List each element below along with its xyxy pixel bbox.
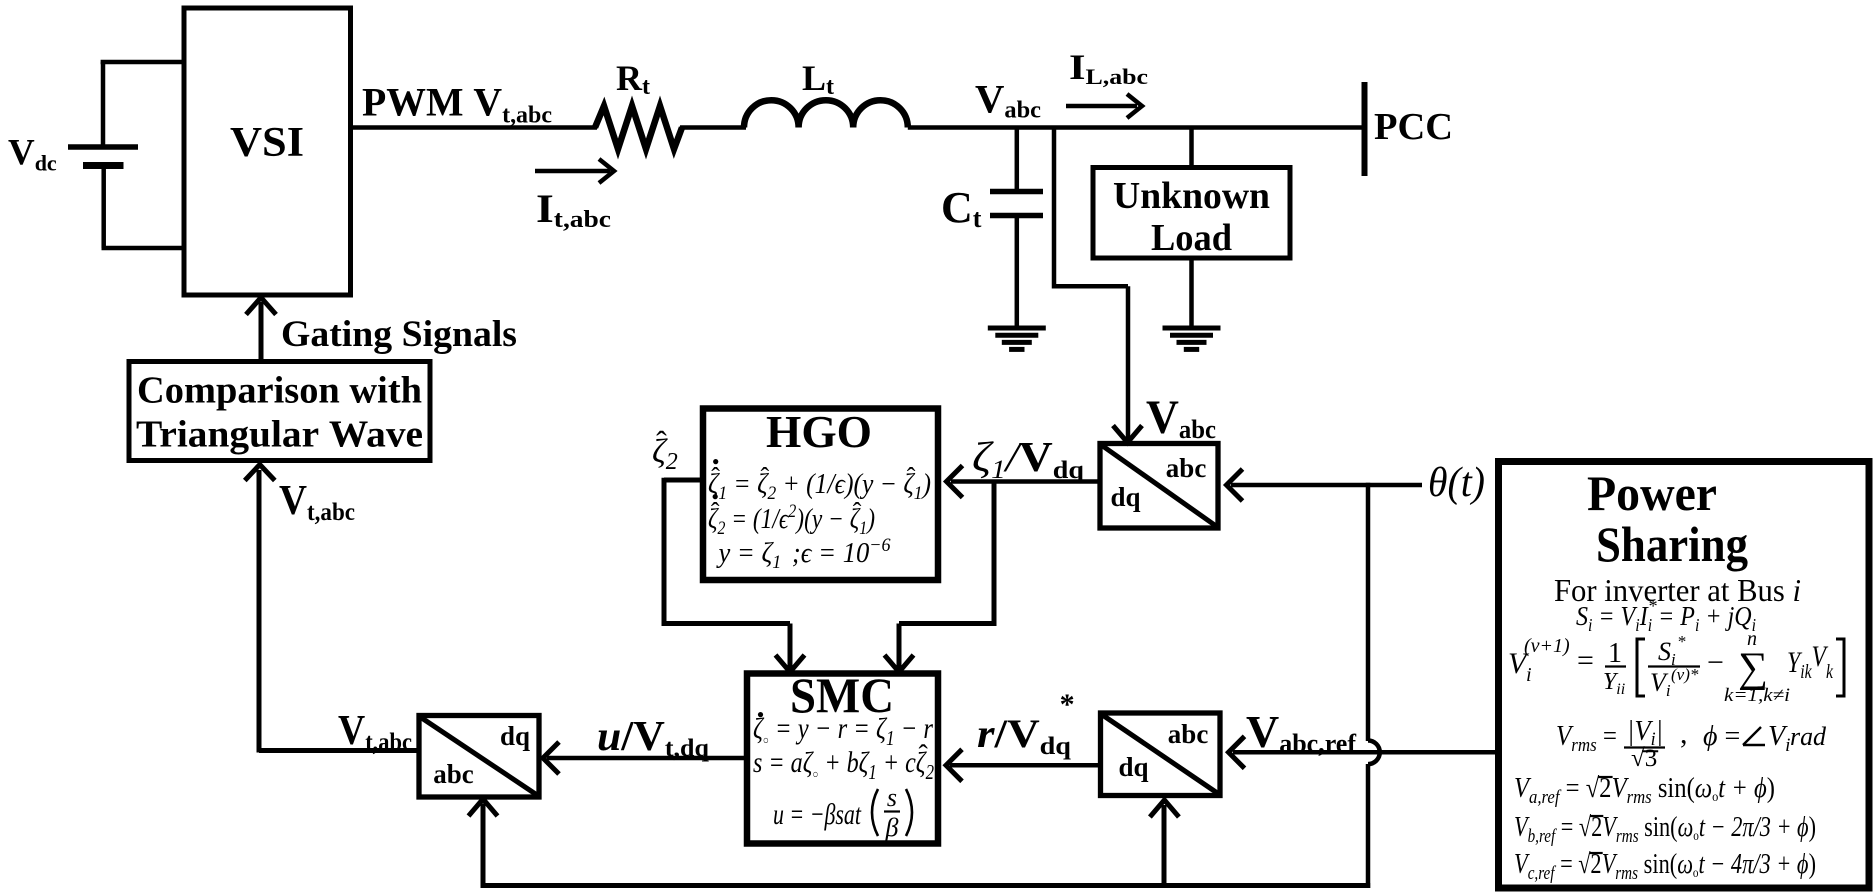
svg-text:V: V bbox=[1007, 711, 1040, 756]
svg-text:|: | bbox=[1656, 716, 1663, 747]
svg-text:s: s bbox=[887, 783, 897, 812]
svg-text:PWM V: PWM V bbox=[362, 80, 502, 125]
svg-text:*: * bbox=[1060, 688, 1075, 721]
svg-text:rms: rms bbox=[1615, 863, 1638, 884]
svg-text:2: 2 bbox=[666, 449, 678, 475]
svg-text:I: I bbox=[536, 186, 554, 231]
svg-text:abc: abc bbox=[433, 759, 474, 789]
svg-text:sin(: sin( bbox=[1652, 773, 1695, 804]
svg-text:−: − bbox=[880, 469, 904, 500]
svg-text:s = a: s = a bbox=[753, 746, 803, 779]
svg-text:i: i bbox=[1793, 572, 1802, 608]
svg-text:t,abc: t,abc bbox=[554, 207, 612, 233]
svg-text:= (1/: = (1/ bbox=[725, 504, 780, 535]
svg-text:,: , bbox=[1680, 717, 1688, 750]
svg-text:=: = bbox=[1555, 849, 1579, 880]
svg-text:): ) bbox=[1809, 812, 1816, 843]
svg-text:Triangular Wave: Triangular Wave bbox=[136, 414, 423, 456]
svg-text:*: * bbox=[1677, 632, 1686, 651]
svg-text:dq: dq bbox=[500, 721, 530, 751]
svg-text:k: k bbox=[1826, 661, 1834, 683]
svg-text:2: 2 bbox=[926, 760, 935, 784]
svg-text:L,abc: L,abc bbox=[1086, 64, 1149, 89]
svg-text:|V: |V bbox=[1627, 716, 1653, 747]
svg-text:dq: dq bbox=[1119, 752, 1149, 782]
svg-text:c,ref: c,ref bbox=[1528, 863, 1557, 884]
svg-text:−: − bbox=[1707, 646, 1724, 679]
svg-text:+ c: + c bbox=[877, 746, 916, 779]
svg-text:=: = bbox=[727, 469, 757, 500]
svg-text:)(y: )(y bbox=[843, 469, 880, 500]
svg-text:√3: √3 bbox=[1631, 745, 1657, 772]
svg-text:V: V bbox=[1246, 706, 1279, 757]
svg-text:+ ϕ: + ϕ bbox=[1725, 773, 1767, 804]
svg-text:PCC: PCC bbox=[1374, 106, 1453, 148]
svg-text:L: L bbox=[802, 58, 826, 98]
svg-text:rad: rad bbox=[1790, 722, 1827, 751]
svg-text:ii: ii bbox=[1616, 681, 1625, 698]
svg-text:1: 1 bbox=[718, 483, 727, 504]
svg-text:=: = bbox=[1555, 812, 1579, 843]
svg-text:1: 1 bbox=[859, 518, 867, 539]
svg-text:− 2π/3 + ϕ: − 2π/3 + ϕ bbox=[1705, 812, 1809, 843]
svg-text:abc,ref: abc,ref bbox=[1279, 729, 1356, 758]
svg-text:=: = bbox=[1577, 644, 1594, 677]
svg-text:V: V bbox=[1019, 435, 1053, 481]
svg-text:Sharing: Sharing bbox=[1596, 516, 1748, 572]
svg-text:θ: θ bbox=[1428, 460, 1448, 506]
svg-text:1: 1 bbox=[991, 455, 1006, 484]
svg-text:V: V bbox=[338, 708, 365, 754]
svg-text:abc: abc bbox=[1179, 415, 1216, 444]
svg-text:Comparison with: Comparison with bbox=[137, 370, 422, 412]
svg-text:Power: Power bbox=[1587, 465, 1717, 521]
svg-text:u =: u = bbox=[773, 798, 810, 831]
svg-text:): ) bbox=[1809, 849, 1816, 880]
svg-text:sat: sat bbox=[835, 798, 861, 831]
svg-text:rms: rms bbox=[1571, 735, 1596, 756]
svg-text:1: 1 bbox=[1608, 638, 1622, 669]
svg-text:β: β bbox=[824, 798, 836, 831]
svg-text:): ) bbox=[1767, 773, 1775, 804]
svg-text:= P: = P bbox=[1652, 601, 1695, 631]
svg-text:dq: dq bbox=[1040, 733, 1072, 760]
svg-text:)(y: )(y bbox=[795, 504, 828, 535]
svg-text:V: V bbox=[279, 478, 307, 524]
svg-text:dq: dq bbox=[1111, 482, 1141, 512]
svg-text:t: t bbox=[642, 74, 650, 100]
svg-text:ϕ: ϕ bbox=[1703, 721, 1718, 752]
svg-text:t,abc: t,abc bbox=[307, 499, 355, 526]
svg-text:abc: abc bbox=[1166, 453, 1207, 483]
svg-text:y =: y = bbox=[716, 538, 762, 569]
svg-text:dc: dc bbox=[35, 151, 57, 176]
svg-text:β: β bbox=[885, 813, 899, 842]
svg-text:rms: rms bbox=[1616, 826, 1639, 847]
svg-text:t: t bbox=[973, 204, 982, 233]
svg-text:t,dq: t,dq bbox=[665, 735, 709, 762]
svg-text:+ jQ: + jQ bbox=[1699, 601, 1751, 631]
svg-text:): ) bbox=[921, 469, 931, 500]
svg-text:i: i bbox=[1526, 664, 1532, 686]
svg-text:/: / bbox=[993, 711, 1008, 756]
svg-text:(v)*: (v)* bbox=[1671, 665, 1699, 684]
svg-text:HGO: HGO bbox=[766, 406, 872, 457]
svg-text:V: V bbox=[8, 133, 35, 174]
svg-text:n: n bbox=[1747, 628, 1757, 650]
svg-text:b,ref: b,ref bbox=[1528, 826, 1558, 847]
svg-text:−: − bbox=[810, 798, 825, 831]
svg-text:t,abc: t,abc bbox=[365, 729, 412, 756]
svg-text:sin(: sin( bbox=[1638, 849, 1677, 880]
svg-text:a,ref: a,ref bbox=[1529, 787, 1562, 808]
svg-text:(v+1): (v+1) bbox=[1524, 635, 1570, 657]
svg-text:dq: dq bbox=[1053, 457, 1084, 484]
svg-text:ω: ω bbox=[1678, 812, 1694, 843]
svg-text:Gating Signals: Gating Signals bbox=[281, 314, 517, 355]
svg-text:Load: Load bbox=[1151, 217, 1232, 259]
svg-text:V: V bbox=[633, 714, 665, 760]
svg-text:;: ; bbox=[781, 538, 801, 569]
svg-text:S: S bbox=[1576, 601, 1588, 631]
svg-text:k=1,k≠i: k=1,k≠i bbox=[1724, 685, 1790, 706]
svg-text:S: S bbox=[1658, 637, 1671, 666]
svg-text:1: 1 bbox=[772, 552, 781, 573]
svg-text:VSI: VSI bbox=[230, 120, 304, 166]
svg-text:ω: ω bbox=[1695, 773, 1712, 804]
svg-text:u: u bbox=[597, 714, 621, 760]
svg-text:−: − bbox=[828, 504, 850, 535]
svg-text:abc: abc bbox=[1168, 719, 1209, 749]
svg-text:V: V bbox=[975, 77, 1005, 122]
svg-text:t,abc: t,abc bbox=[502, 103, 552, 129]
svg-text:rms: rms bbox=[1627, 787, 1652, 808]
svg-text:= y: = y bbox=[769, 712, 815, 745]
svg-text:1: 1 bbox=[868, 760, 876, 784]
svg-text:+ b: + b bbox=[818, 746, 858, 779]
svg-text:*: * bbox=[1648, 596, 1657, 616]
svg-text:+ (1/: + (1/ bbox=[776, 469, 837, 500]
svg-text:abc: abc bbox=[1004, 98, 1041, 124]
svg-text:−: − bbox=[815, 712, 838, 745]
svg-text:V: V bbox=[1146, 391, 1179, 444]
svg-text:R: R bbox=[616, 58, 643, 98]
svg-text:1: 1 bbox=[914, 483, 923, 504]
svg-text:= 10: = 10 bbox=[812, 538, 870, 569]
svg-text:ω: ω bbox=[1677, 849, 1693, 880]
svg-text:C: C bbox=[941, 183, 973, 232]
svg-text:t: t bbox=[826, 74, 834, 100]
svg-text:r =: r = bbox=[838, 712, 876, 745]
svg-text:=: = bbox=[1560, 773, 1586, 804]
svg-text:=: = bbox=[1597, 721, 1617, 752]
svg-text:= V: = V bbox=[1592, 601, 1638, 631]
svg-text:−6: −6 bbox=[869, 535, 891, 556]
svg-text:(t): (t) bbox=[1448, 460, 1486, 506]
svg-text:r: r bbox=[977, 711, 995, 756]
svg-text:): ) bbox=[866, 504, 875, 535]
svg-text:Unknown: Unknown bbox=[1113, 175, 1270, 217]
svg-text:sin(: sin( bbox=[1639, 812, 1678, 843]
svg-text:=: = bbox=[1718, 721, 1748, 752]
svg-text:− 4π/3 + ϕ: − 4π/3 + ϕ bbox=[1705, 849, 1809, 880]
svg-text:I: I bbox=[1069, 47, 1086, 87]
